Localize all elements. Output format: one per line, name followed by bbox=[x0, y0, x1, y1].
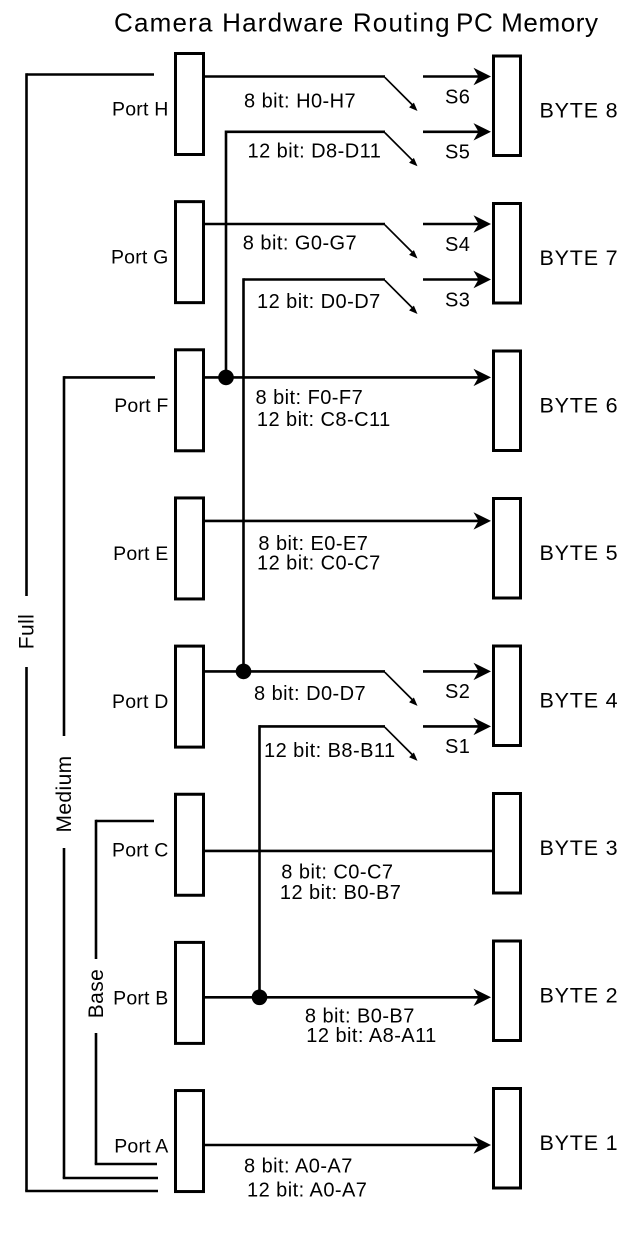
svg-text:Port G: Port G bbox=[111, 247, 169, 269]
svg-text:12 bit: B0-B7: 12 bit: B0-B7 bbox=[280, 882, 401, 904]
svg-text:Port H: Port H bbox=[112, 99, 168, 121]
switch S5 blade bbox=[385, 133, 413, 161]
svg-text:Medium: Medium bbox=[53, 755, 76, 832]
svg-text:S5: S5 bbox=[445, 142, 470, 164]
wire Port A to BYTE 1 with arrow bbox=[204, 1144, 479, 1147]
svg-text:BYTE 1: BYTE 1 bbox=[540, 1131, 619, 1155]
port C box bbox=[176, 794, 204, 895]
svg-text:S6: S6 bbox=[445, 86, 470, 108]
svg-text:PC Memory: PC Memory bbox=[456, 8, 599, 38]
svg-text:8 bit: F0-F7: 8 bit: F0-F7 bbox=[256, 387, 364, 409]
svg-text:12 bit: A8-A11: 12 bit: A8-A11 bbox=[306, 1025, 436, 1047]
svg-text:Port E: Port E bbox=[113, 543, 168, 565]
wire S4 output with arrow bbox=[423, 223, 479, 226]
wire net D8-D11 horizontal feed bbox=[226, 131, 385, 134]
svg-text:BYTE 4: BYTE 4 bbox=[540, 689, 619, 713]
svg-text:8 bit: C0-C7: 8 bit: C0-C7 bbox=[281, 861, 393, 883]
svg-text:Port A: Port A bbox=[114, 1136, 168, 1158]
switch S4 blade bbox=[385, 225, 413, 253]
rail Base (net Base) bbox=[96, 820, 154, 823]
svg-text:S2: S2 bbox=[445, 681, 470, 703]
port F box bbox=[176, 350, 204, 451]
byte 8 box (PC memory BYTE 8) bbox=[494, 56, 521, 156]
wire S2 output with arrow bbox=[423, 670, 479, 673]
svg-text:BYTE 5: BYTE 5 bbox=[540, 541, 619, 565]
switch S1 blade bbox=[385, 727, 413, 755]
switch S6 blade bbox=[385, 77, 413, 105]
svg-text:BYTE 8: BYTE 8 bbox=[540, 99, 619, 123]
byte 3 box (PC memory BYTE 3) bbox=[494, 794, 521, 894]
svg-text:8 bit: D0-D7: 8 bit: D0-D7 bbox=[254, 683, 366, 705]
svg-text:S4: S4 bbox=[445, 234, 470, 256]
wire net D0-D7 horizontal feed bbox=[244, 278, 386, 281]
svg-text:8 bit: G0-G7: 8 bit: G0-G7 bbox=[243, 232, 357, 254]
byte 2 box (PC memory BYTE 2) bbox=[494, 941, 521, 1041]
svg-text:12 bit: A0-A7: 12 bit: A0-A7 bbox=[247, 1179, 367, 1201]
byte 6 box (PC memory BYTE 6) bbox=[494, 351, 521, 451]
svg-text:Port D: Port D bbox=[112, 691, 168, 713]
svg-text:12 bit: D8-D11: 12 bit: D8-D11 bbox=[248, 140, 382, 162]
svg-text:12 bit: C0-C7: 12 bit: C0-C7 bbox=[257, 553, 381, 575]
wire S3 output with arrow bbox=[423, 278, 479, 281]
svg-text:Port F: Port F bbox=[114, 395, 168, 417]
wire Port F to BYTE 6 with arrow bbox=[204, 376, 479, 379]
svg-text:BYTE 3: BYTE 3 bbox=[540, 836, 619, 860]
rail Medium (net Medium) bbox=[64, 376, 155, 379]
wire S1 output with arrow bbox=[423, 725, 479, 728]
byte 5 box (PC memory BYTE 5) bbox=[494, 499, 521, 599]
svg-text:S1: S1 bbox=[445, 736, 470, 758]
svg-text:8 bit: E0-E7: 8 bit: E0-E7 bbox=[258, 533, 368, 555]
wire net D8-D11 vertical bbox=[225, 131, 228, 378]
svg-text:Base: Base bbox=[85, 969, 108, 1018]
wire Port C to BYTE 3 (no arrow) bbox=[204, 850, 495, 853]
wire Port B to BYTE 2 with arrow bbox=[204, 996, 479, 999]
port H box bbox=[176, 54, 204, 155]
wire Port D 8-bit feed bbox=[204, 670, 385, 673]
svg-text:Full: Full bbox=[16, 614, 39, 649]
wire S6 output with arrow bbox=[423, 75, 479, 78]
port G box bbox=[176, 202, 204, 303]
rail Full (net Full) bbox=[27, 73, 155, 76]
byte 4 box (PC memory BYTE 4) bbox=[494, 646, 521, 746]
junction dot B (B8-B11 join) bbox=[252, 990, 268, 1006]
byte 7 box (PC memory BYTE 7) bbox=[494, 204, 521, 304]
svg-text:Port C: Port C bbox=[112, 839, 168, 861]
wire Port E to BYTE 5 with arrow bbox=[204, 520, 479, 523]
svg-text:BYTE 7: BYTE 7 bbox=[540, 246, 619, 270]
port E box bbox=[176, 498, 204, 599]
svg-text:BYTE 2: BYTE 2 bbox=[540, 984, 619, 1008]
svg-text:Port B: Port B bbox=[113, 987, 168, 1009]
port D box bbox=[176, 646, 204, 747]
wire S5 output with arrow bbox=[423, 131, 479, 134]
svg-text:8 bit: H0-H7: 8 bit: H0-H7 bbox=[244, 90, 356, 112]
svg-text:12 bit: C8-C11: 12 bit: C8-C11 bbox=[257, 409, 391, 431]
wire net B8-B11 vertical bbox=[258, 725, 261, 997]
svg-text:8 bit: A0-A7: 8 bit: A0-A7 bbox=[244, 1156, 353, 1178]
wire Port H 8-bit feed bbox=[204, 75, 385, 78]
byte 1 box (PC memory BYTE 1) bbox=[494, 1089, 521, 1189]
wire net B8-B11 horizontal feed bbox=[260, 725, 386, 728]
wire Port G 8-bit feed bbox=[204, 223, 385, 226]
svg-text:12 bit: D0-D7: 12 bit: D0-D7 bbox=[257, 291, 381, 313]
switch S3 blade bbox=[385, 280, 413, 308]
switch S2 blade bbox=[385, 672, 413, 700]
junction dot F (D8-D11 join) bbox=[218, 370, 234, 386]
svg-text:Camera Hardware Routing: Camera Hardware Routing bbox=[114, 8, 451, 38]
wire net D0-D7 vertical bbox=[242, 278, 245, 671]
svg-text:BYTE 6: BYTE 6 bbox=[540, 394, 619, 418]
port A box bbox=[176, 1091, 204, 1192]
junction dot D (D0-D7 join) bbox=[236, 664, 252, 680]
svg-text:S3: S3 bbox=[445, 289, 470, 311]
svg-text:12 bit: B8-B11: 12 bit: B8-B11 bbox=[264, 740, 396, 762]
port B box bbox=[176, 942, 204, 1043]
